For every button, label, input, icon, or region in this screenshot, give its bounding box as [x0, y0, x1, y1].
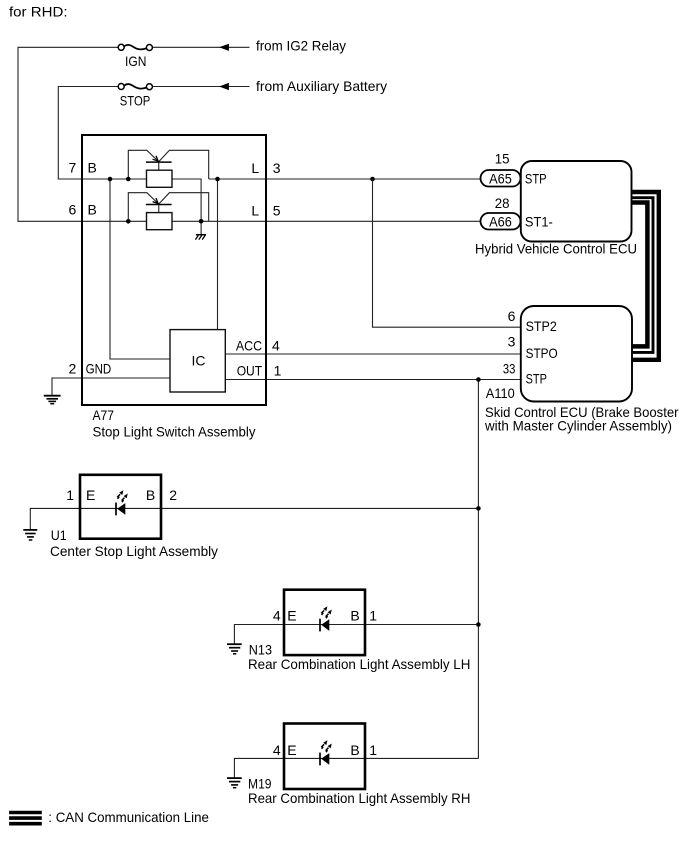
- label U1: [51, 527, 67, 543]
- connector box A77: [82, 135, 266, 405]
- svg-text:B: B: [88, 201, 97, 217]
- pin 33 label (skid): [503, 361, 516, 377]
- svg-text:OUT: OUT: [237, 362, 263, 378]
- wire internal column to IC top: [217, 179, 219, 330]
- pin 4 label (M19): [273, 742, 281, 758]
- label A110: [486, 385, 515, 401]
- wire row B resistor R2 to pin5 and A66: [172, 220, 481, 222]
- caption Skid Control ECU line 1: [485, 404, 679, 420]
- pin name E (M19): [287, 742, 296, 758]
- junction node U1 trunk: [476, 506, 481, 511]
- svg-text:28: 28: [495, 195, 510, 211]
- svg-text:1: 1: [66, 487, 74, 503]
- caption Skid Control ECU line 2: [484, 418, 672, 434]
- svg-text:Stop Light Switch Assembly: Stop Light Switch Assembly: [93, 423, 256, 439]
- svg-text:A66: A66: [489, 213, 512, 229]
- label A77: [93, 407, 115, 423]
- LED symbol N13: [320, 606, 332, 631]
- connector oval A66: [481, 213, 521, 230]
- junction node A65 branch: [370, 177, 375, 182]
- svg-text:2: 2: [69, 361, 77, 377]
- svg-text:33: 33: [503, 361, 516, 377]
- pin name E (U1): [86, 487, 95, 503]
- label from IG2 Relay: [256, 38, 346, 54]
- junction node row B x128: [126, 219, 131, 224]
- svg-text:1: 1: [369, 608, 377, 624]
- svg-text:E: E: [287, 608, 296, 624]
- pin 2 label: [69, 361, 77, 377]
- svg-text:7: 7: [69, 160, 77, 176]
- pin 1 label (N13): [369, 608, 377, 624]
- wire STOP feed left segment: [58, 87, 118, 180]
- svg-text:4: 4: [272, 337, 280, 353]
- wire N13 left to ground: [234, 625, 284, 645]
- IC U1 box: [170, 330, 225, 392]
- svg-text:with Master Cylinder Assembly): with Master Cylinder Assembly): [484, 418, 672, 434]
- lamp box U1: [80, 475, 161, 539]
- pin 6 label: [69, 201, 77, 217]
- svg-text:1: 1: [274, 362, 282, 378]
- svg-text:A110: A110: [486, 385, 515, 401]
- svg-text:4: 4: [273, 742, 281, 758]
- svg-text:Center Stop Light Assembly: Center Stop Light Assembly: [50, 543, 218, 559]
- wire row A pin7 to resistor R1: [82, 178, 147, 180]
- arrow from IG2 Relay: [219, 44, 229, 51]
- wire IGN feed right segment: [153, 46, 250, 48]
- svg-text:STP2: STP2: [526, 318, 557, 334]
- svg-text:6: 6: [508, 308, 516, 324]
- wire U1 internal: [80, 507, 161, 509]
- arrow from Auxiliary Battery: [219, 83, 229, 90]
- svg-text:: CAN Communication Line: : CAN Communication Line: [48, 809, 209, 825]
- svg-text:B: B: [88, 160, 97, 176]
- resistor R2: [147, 213, 173, 230]
- svg-text:5: 5: [273, 202, 281, 218]
- pin 15 label: [495, 151, 510, 167]
- pin 3 label: [273, 160, 281, 176]
- pin 5 label: [273, 202, 281, 218]
- wire trunk vertical: [477, 380, 479, 759]
- junction node row A x217: [215, 177, 220, 182]
- wire STP2 branch: [373, 179, 521, 327]
- ground G3 N13: [227, 644, 242, 654]
- pin 4 label (N13): [273, 608, 281, 624]
- svg-text:from Auxiliary Battery: from Auxiliary Battery: [256, 78, 387, 94]
- caption Stop Light Switch Assembly: [93, 423, 256, 439]
- svg-text:ACC: ACC: [236, 337, 262, 353]
- junction node OUT-STP: [476, 377, 481, 382]
- wire GND row: [52, 378, 170, 395]
- svg-text:B: B: [146, 487, 155, 503]
- wire M19 B to trunk: [365, 757, 478, 759]
- pin 7 label: [69, 160, 77, 176]
- pin 2 label (U1): [169, 487, 177, 503]
- wire N13 B to trunk: [365, 624, 478, 626]
- pin 3 label (skid): [508, 334, 516, 350]
- svg-text:STP: STP: [525, 170, 547, 186]
- svg-text:ST1-: ST1-: [525, 213, 553, 229]
- wire IGN feed left segment: [18, 47, 118, 221]
- wire U1 left to ground: [30, 508, 80, 529]
- pin 1 label: [274, 362, 282, 378]
- svg-text:2: 2: [169, 487, 177, 503]
- svg-text:STOP: STOP: [120, 93, 151, 109]
- caption Hybrid Vehicle Control ECU: [475, 241, 637, 257]
- title text: [9, 4, 68, 20]
- svg-text:4: 4: [273, 608, 281, 624]
- wire N13 internal: [284, 624, 365, 626]
- LED symbol U1: [116, 490, 128, 515]
- pin 1 label (M19): [369, 742, 377, 758]
- wire ACC to STPO row: [225, 353, 521, 355]
- pin 1 name OUT: [237, 362, 263, 378]
- wire row A pin3 segment: [209, 178, 481, 180]
- pin name STP (skid): [526, 370, 547, 386]
- svg-text:GND: GND: [86, 361, 112, 377]
- lamp box N13: [284, 590, 365, 655]
- fuse IGN: [118, 44, 152, 69]
- resistor R1: [147, 170, 173, 187]
- wire internal column to IC left: [110, 179, 170, 359]
- svg-text:L: L: [251, 160, 259, 176]
- svg-text:U1: U1: [51, 527, 67, 543]
- svg-text:B: B: [350, 742, 359, 758]
- junction node N13 trunk: [476, 622, 481, 627]
- svg-text:A77: A77: [93, 407, 115, 423]
- pin name B (N13): [350, 608, 359, 624]
- junction node row A x110: [108, 177, 113, 182]
- svg-text:Hybrid Vehicle Control ECU: Hybrid Vehicle Control ECU: [475, 241, 637, 257]
- pin name E (N13): [287, 608, 296, 624]
- svg-text:from IG2 Relay: from IG2 Relay: [256, 38, 346, 54]
- wire U1 B to trunk: [161, 507, 478, 509]
- pin name STP2: [526, 318, 557, 334]
- svg-text:for RHD:: for RHD:: [9, 4, 68, 20]
- pin name ST1-: [525, 213, 553, 229]
- pin 1 label (U1): [66, 487, 74, 503]
- label M19: [248, 776, 272, 792]
- label N13: [249, 641, 272, 657]
- legend CAN symbol: [9, 813, 42, 824]
- svg-text:STPO: STPO: [526, 345, 558, 361]
- connector oval A65: [481, 170, 521, 187]
- pin name STP (hybrid): [525, 170, 547, 186]
- svg-text:B: B: [350, 608, 359, 624]
- svg-text:15: 15: [495, 151, 510, 167]
- wire row B pin6 to resistor R2: [82, 220, 147, 222]
- ground G2 U1: [23, 530, 37, 540]
- svg-text:1: 1: [369, 742, 377, 758]
- svg-text:E: E: [86, 487, 95, 503]
- caption Center Stop Light Assembly: [50, 543, 218, 559]
- transistor Q1: [128, 150, 208, 179]
- svg-text:IGN: IGN: [125, 53, 146, 69]
- svg-text:3: 3: [508, 334, 516, 350]
- pin name B (U1): [146, 487, 155, 503]
- wire M19 left to ground: [234, 758, 284, 778]
- pin 3 name L: [251, 160, 259, 176]
- svg-text:STP: STP: [526, 370, 547, 386]
- svg-text:Rear Combination Light Assembl: Rear Combination Light Assembly RH: [248, 790, 470, 806]
- ECU box Hybrid Vehicle Control: [521, 161, 632, 242]
- wire M19 internal: [284, 757, 365, 759]
- pin name STPO: [526, 345, 558, 361]
- lamp box M19: [284, 724, 365, 790]
- wire row A resistor R1 to down-corner: [172, 179, 201, 221]
- svg-text:3: 3: [273, 160, 281, 176]
- caption Rear Combination Light Assembly RH: [248, 790, 470, 806]
- svg-text:E: E: [287, 742, 296, 758]
- ground G4 M19: [227, 778, 242, 788]
- wire OUT to STP row: [225, 379, 521, 381]
- internal chassis ground: [195, 221, 206, 239]
- junction node row A x128: [126, 177, 131, 182]
- svg-text:6: 6: [69, 201, 77, 217]
- pin 2 name GND: [86, 361, 112, 377]
- wire STOP feed right segment: [153, 86, 250, 88]
- legend text CAN Communication Line: [48, 809, 209, 825]
- pin 4 label: [272, 337, 280, 353]
- ECU box Skid Control: [521, 306, 632, 402]
- LED symbol M19: [320, 740, 332, 765]
- ground G1 A77: [44, 396, 61, 404]
- svg-text:N13: N13: [249, 641, 272, 657]
- pin 4 name ACC: [236, 337, 262, 353]
- pin 6 name B: [88, 201, 97, 217]
- pin 5 name L: [251, 202, 259, 218]
- svg-text:L: L: [251, 202, 259, 218]
- svg-text:A65: A65: [489, 170, 512, 186]
- pin 28 label: [495, 195, 510, 211]
- pin 7 name B: [88, 160, 97, 176]
- svg-text:IC: IC: [192, 353, 206, 369]
- CAN bus lines: [631, 192, 659, 360]
- caption Rear Combination Light Assembly LH: [248, 656, 470, 672]
- transistor Q2: [128, 193, 208, 222]
- svg-text:Rear Combination Light Assembl: Rear Combination Light Assembly LH: [248, 656, 470, 672]
- pin 6 label (skid): [508, 308, 516, 324]
- label from Auxiliary Battery: [256, 78, 387, 94]
- pin name B (M19): [350, 742, 359, 758]
- junction node row B x201: [199, 219, 204, 224]
- fuse STOP: [118, 84, 152, 109]
